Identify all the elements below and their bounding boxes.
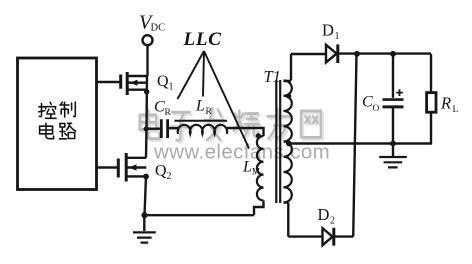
svg-text:LLC: LLC bbox=[183, 29, 222, 50]
svg-text:1: 1 bbox=[169, 82, 174, 93]
svg-text:R: R bbox=[165, 108, 172, 118]
svg-text:L: L bbox=[242, 159, 252, 176]
capacitor CO bbox=[383, 98, 404, 101]
wire CO top bbox=[392, 54, 394, 98]
svg-text:C: C bbox=[154, 99, 165, 116]
wire VDC drop bbox=[146, 46, 148, 77]
node CO bottom bbox=[390, 141, 396, 147]
wire secondary top lead bbox=[284, 54, 292, 81]
terminal VDC bbox=[143, 35, 153, 45]
wire RL top bbox=[430, 54, 432, 93]
svg-text:D: D bbox=[318, 205, 330, 224]
node dots bbox=[141, 51, 396, 218]
svg-text:2: 2 bbox=[167, 171, 172, 182]
svg-text:O: O bbox=[373, 104, 380, 114]
svg-text:L: L bbox=[453, 105, 459, 115]
inductor LR bbox=[175, 120, 228, 122]
wire LR to transformer bbox=[227, 128, 264, 136]
node Q2 source bbox=[143, 174, 149, 180]
inductor LM / primary winding bbox=[257, 136, 264, 200]
transistor Q1 bbox=[121, 72, 147, 95]
wire secondary bottom lead bbox=[284, 203, 289, 237]
wire output return rail bbox=[289, 142, 432, 144]
wire gate Q1 from box bbox=[97, 46, 432, 237]
svg-text:1: 1 bbox=[335, 31, 340, 42]
node CO top bbox=[390, 51, 396, 57]
svg-text:Q: Q bbox=[155, 163, 167, 180]
secondary phase dot bbox=[286, 94, 291, 99]
primary phase dot bbox=[256, 133, 261, 138]
wire CR to LR bbox=[169, 127, 179, 129]
wire D1 cathode rail bbox=[339, 52, 432, 54]
watermark logo text 电子发烧友网 bbox=[142, 110, 323, 142]
svg-text:R: R bbox=[440, 94, 451, 113]
control box 控制电路 bbox=[18, 58, 97, 190]
svg-text:DC: DC bbox=[151, 23, 166, 34]
LLC pointer lines bbox=[178, 51, 250, 149]
wire D1 anode bbox=[291, 53, 326, 55]
transformer secondary winding bbox=[284, 80, 292, 202]
diode D1 bbox=[326, 45, 337, 63]
wire D2 cathode bbox=[335, 235, 354, 237]
svg-text:2: 2 bbox=[330, 216, 335, 227]
路 bbox=[59, 124, 66, 139]
电 bbox=[40, 123, 54, 138]
resistor RL bbox=[427, 93, 436, 113]
wire ground stub secondary bbox=[392, 144, 394, 157]
wire primary bottom step bbox=[254, 201, 264, 216]
node D2 return bbox=[354, 51, 360, 57]
transformer T1 core bbox=[276, 80, 280, 203]
diode D2 bbox=[323, 228, 333, 245]
transistor Q2 bbox=[118, 153, 146, 182]
svg-text:Q: Q bbox=[157, 73, 169, 90]
wire half-bridge rail bbox=[145, 76, 148, 215]
capacitor CR bbox=[161, 119, 167, 138]
制 bbox=[60, 102, 69, 117]
node center tap bbox=[286, 141, 292, 147]
node Q1 source bbox=[144, 89, 149, 94]
wire D2 anode bbox=[288, 235, 321, 237]
svg-text:R: R bbox=[206, 107, 213, 117]
node primary ground bbox=[141, 212, 147, 218]
svg-text:T1: T1 bbox=[264, 67, 281, 86]
wire bottom return bbox=[145, 214, 255, 216]
svg-text:C: C bbox=[362, 94, 373, 111]
node A (half-bridge midpoint) bbox=[144, 127, 149, 132]
控 bbox=[39, 104, 45, 117]
svg-text:M: M bbox=[252, 167, 260, 177]
wire node A to CR bbox=[147, 127, 161, 129]
ground primary bbox=[133, 232, 156, 242]
wire RL bottom bbox=[430, 112, 432, 143]
wire D2 return vertical bbox=[353, 54, 356, 237]
wire ground stub primary bbox=[143, 215, 145, 231]
ground secondary bbox=[379, 157, 407, 167]
wire CO bottom bbox=[392, 107, 394, 143]
wire gate Q2 from box bbox=[97, 166, 118, 168]
svg-text:D: D bbox=[322, 21, 334, 40]
svg-text:L: L bbox=[195, 98, 205, 115]
